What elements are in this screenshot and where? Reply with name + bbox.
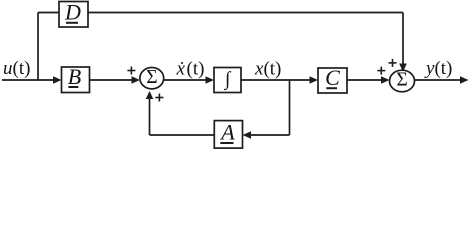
block B bbox=[62, 67, 90, 93]
label A bbox=[219, 119, 235, 144]
label D bbox=[64, 0, 81, 25]
wire u(t) input to B bbox=[2, 76, 62, 83]
label xdot(t) bbox=[176, 59, 205, 80]
label u(t) bbox=[3, 58, 30, 79]
svg-text:Σ: Σ bbox=[396, 70, 407, 91]
svg-text:y(t): y(t) bbox=[424, 58, 452, 79]
wire S1 to integrator bbox=[164, 76, 214, 83]
plus sign S1 bottom bbox=[155, 94, 163, 102]
integrator block bbox=[214, 68, 241, 93]
label x(t) bbox=[254, 59, 281, 80]
block C bbox=[318, 68, 347, 93]
svg-text:u(t): u(t) bbox=[3, 58, 30, 79]
svg-text:D: D bbox=[64, 0, 81, 25]
integral symbol bbox=[224, 69, 232, 91]
svg-text:A: A bbox=[219, 119, 235, 144]
wire D to sum S2 top bbox=[88, 13, 407, 73]
summing junction S1 bbox=[140, 68, 164, 89]
sigma S1 bbox=[146, 67, 157, 88]
svg-text:Σ: Σ bbox=[146, 67, 157, 88]
wire A to sum S1 bottom bbox=[146, 91, 215, 135]
block D bbox=[59, 2, 88, 28]
wire branch to D block bbox=[38, 12, 59, 14]
plus sign S1 left bbox=[127, 67, 135, 75]
block A bbox=[214, 121, 242, 149]
summing junction S2 bbox=[390, 70, 415, 92]
svg-text:B: B bbox=[68, 64, 81, 89]
svg-text:∫: ∫ bbox=[224, 69, 232, 91]
svg-text:x(t): x(t) bbox=[254, 59, 281, 80]
plus sign S2 left bbox=[377, 67, 385, 75]
wire C to sum S2 bbox=[347, 76, 390, 83]
node branch to D bbox=[37, 13, 39, 81]
label C bbox=[325, 65, 340, 90]
label y(t) bbox=[424, 58, 452, 79]
label B bbox=[68, 64, 81, 89]
svg-text:ẋ: ẋ bbox=[176, 59, 186, 80]
wire branch down to A block bbox=[243, 131, 290, 138]
svg-text:(t): (t) bbox=[187, 59, 205, 80]
wire B to sum S1 bbox=[90, 76, 141, 83]
wire integrator to C bbox=[241, 76, 318, 83]
sigma S2 bbox=[396, 70, 407, 91]
wire S2 to y(t) output bbox=[415, 76, 469, 83]
plus sign S2 top bbox=[389, 59, 397, 67]
node branch to A bbox=[289, 80, 291, 135]
svg-text:C: C bbox=[325, 65, 340, 90]
